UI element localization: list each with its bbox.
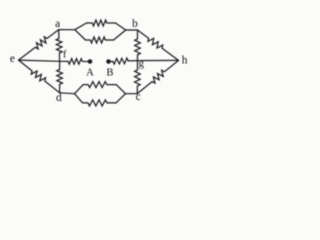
svg-text:e: e <box>10 53 15 65</box>
svg-text:c: c <box>136 91 141 103</box>
resistor d-c upper <box>75 85 84 94</box>
wire conv-c <box>126 93 138 95</box>
wire a-split <box>59 29 75 31</box>
wire conv-b <box>126 29 138 31</box>
resistor a-b lower <box>75 30 86 40</box>
resistor f-d <box>57 61 63 93</box>
svg-text:f: f <box>63 49 67 60</box>
wire g-h <box>138 59 179 61</box>
wire d-split <box>60 92 75 95</box>
resistor e-d <box>19 60 60 93</box>
resistor b-g <box>135 30 141 61</box>
svg-text:h: h <box>182 55 188 67</box>
terminal B <box>106 59 111 64</box>
svg-text:b: b <box>132 18 138 30</box>
svg-text:B: B <box>106 67 113 78</box>
resistor f-A <box>60 59 90 65</box>
wire e-f <box>19 60 60 61</box>
resistor e-a <box>19 30 59 60</box>
svg-text:a: a <box>55 18 60 30</box>
resistor d-c lower <box>75 94 83 103</box>
resistor a-f <box>56 30 62 62</box>
resistor a-b upper <box>75 23 87 30</box>
svg-text:A: A <box>86 67 94 78</box>
resistor B-g <box>109 58 138 64</box>
svg-text:d: d <box>56 92 62 104</box>
terminal A <box>88 59 93 64</box>
resistor b-h <box>138 30 179 60</box>
resistor g-c <box>135 61 141 94</box>
svg-text:g: g <box>139 59 145 70</box>
resistor c-h <box>137 60 178 93</box>
